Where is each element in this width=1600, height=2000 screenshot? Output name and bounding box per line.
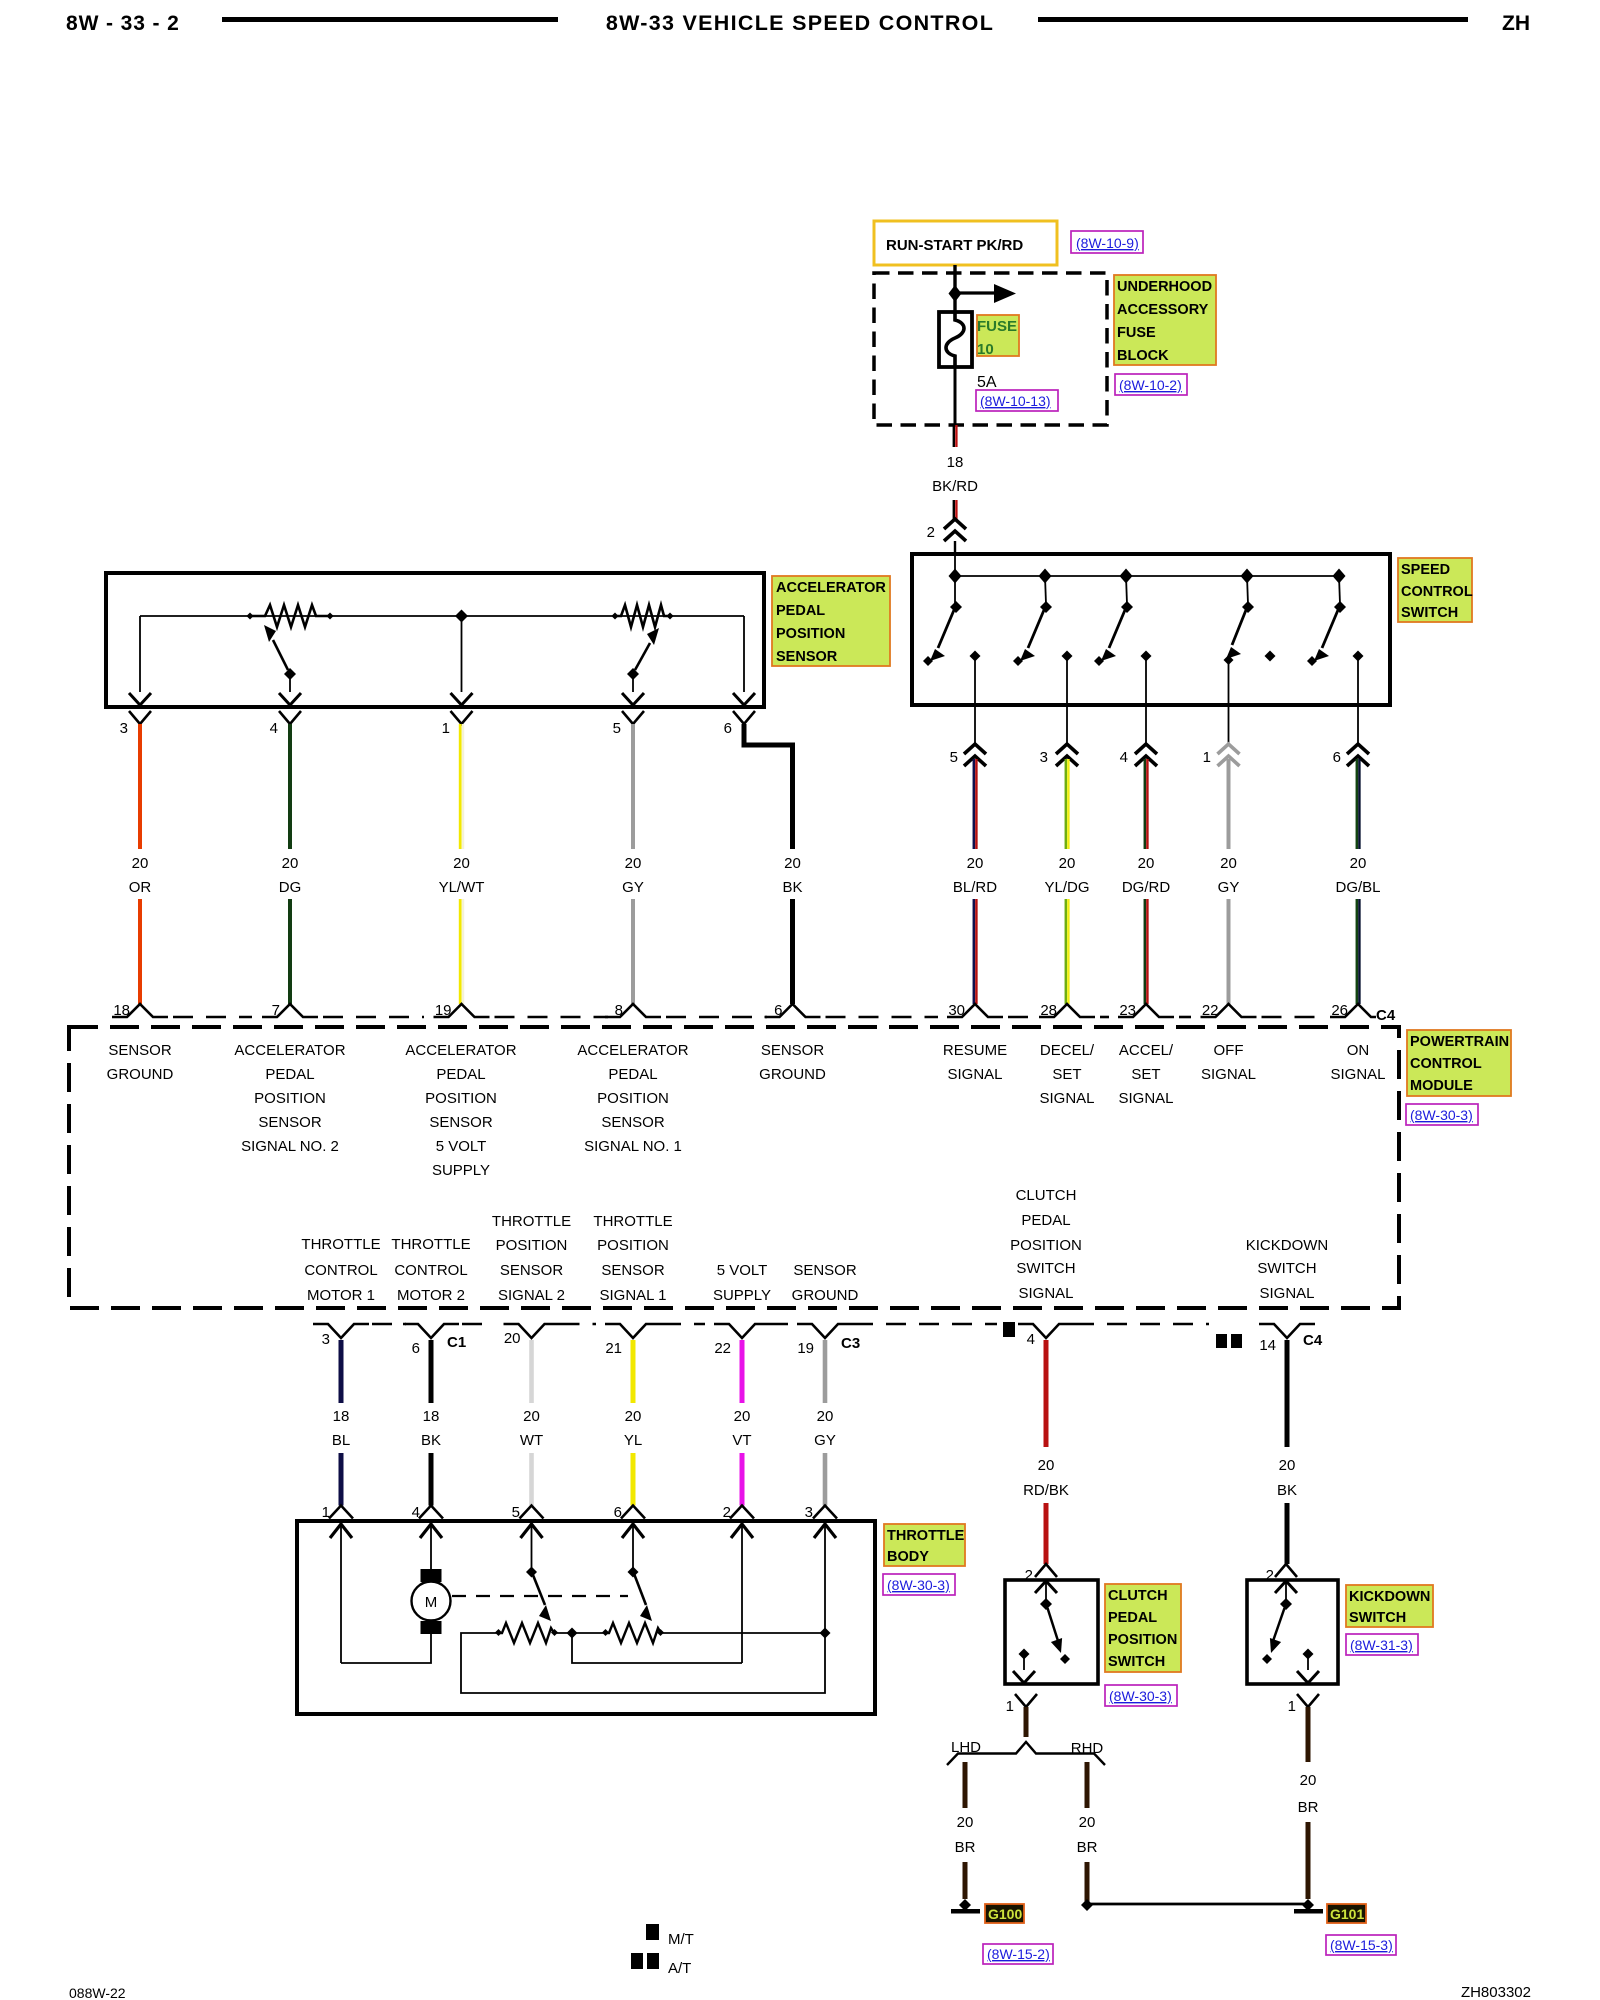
svg-text:(8W-15-2): (8W-15-2)	[987, 1946, 1050, 1962]
svg-text:SIGNAL: SIGNAL	[1118, 1090, 1173, 1107]
powertrain control module dashed boundary	[69, 1027, 1399, 1308]
svg-text:1: 1	[1203, 749, 1211, 766]
svg-text:GY: GY	[1218, 879, 1240, 896]
svg-text:YL/WT: YL/WT	[439, 879, 485, 896]
wire RHD to G101	[1087, 1903, 1308, 1906]
wire BL/RD lower	[973, 899, 976, 1004]
svg-text:C4: C4	[1376, 1007, 1396, 1024]
wire YL/WT pin1 upper	[459, 724, 462, 849]
svg-text:2: 2	[1266, 1567, 1274, 1584]
svg-text:SENSOR: SENSOR	[793, 1262, 857, 1279]
svg-text:3: 3	[120, 720, 128, 737]
clutch pedal position switch box	[1005, 1580, 1098, 1684]
node TPS mid junction	[567, 1628, 578, 1639]
wire BR LHD branch upper	[963, 1762, 968, 1808]
pin 6 entry arrow and wiper	[622, 1524, 652, 1621]
component label UNDERHOOD ACCESSORY FUSE BLOCK	[1114, 275, 1216, 365]
svg-text:20: 20	[1279, 1457, 1296, 1474]
svg-text:GROUND: GROUND	[759, 1066, 826, 1083]
wire GY lower	[1227, 899, 1231, 1004]
pin 2 entry arrow	[731, 1524, 753, 1538]
svg-text:8W-33 VEHICLE SPEED CONTROL: 8W-33 VEHICLE SPEED CONTROL	[606, 11, 994, 35]
wire GY pin5 upper	[631, 724, 635, 849]
svg-text:C1: C1	[447, 1334, 466, 1351]
svg-text:SIGNAL NO. 2: SIGNAL NO. 2	[241, 1138, 339, 1155]
wire BK/RD segment upper	[953, 425, 955, 447]
svg-text:4: 4	[1027, 1331, 1035, 1348]
svg-text:SET: SET	[1131, 1066, 1160, 1083]
svg-text:4: 4	[1120, 749, 1128, 766]
svg-text:MODULE: MODULE	[1410, 1078, 1473, 1094]
resistor APPS track 1	[246, 605, 333, 627]
svg-text:PEDAL: PEDAL	[265, 1066, 314, 1083]
svg-text:GY: GY	[814, 1432, 836, 1449]
wire stub pin 5	[974, 705, 976, 746]
svg-text:G100: G100	[988, 1906, 1022, 1922]
pin 3 entry arrow	[814, 1524, 836, 1538]
svg-text:6: 6	[1333, 749, 1341, 766]
svg-text:18: 18	[333, 1408, 350, 1425]
component label CLUTCH PEDAL POSITION SWITCH	[1105, 1584, 1181, 1672]
svg-text:SIGNAL: SIGNAL	[1330, 1066, 1385, 1083]
svg-text:SIGNAL: SIGNAL	[947, 1066, 1002, 1083]
wire RD/BK lower	[1044, 1503, 1049, 1564]
fuse label FUSE 10	[977, 315, 1019, 356]
svg-text:DG/RD: DG/RD	[1122, 879, 1171, 896]
svg-text:RD/BK: RD/BK	[1023, 1482, 1069, 1499]
svg-text:1: 1	[322, 1504, 330, 1521]
svg-text:(8W-30-3): (8W-30-3)	[887, 1577, 950, 1593]
svg-text:20: 20	[967, 855, 984, 872]
switch SCS accel	[1094, 576, 1152, 705]
wire DG pin4 upper	[288, 724, 292, 849]
svg-text:PEDAL: PEDAL	[436, 1066, 485, 1083]
wire BL upper	[339, 1340, 344, 1403]
header rule left	[222, 17, 558, 22]
svg-text:3: 3	[322, 1331, 330, 1348]
svg-text:POSITION: POSITION	[597, 1237, 669, 1254]
wire YL upper	[631, 1340, 636, 1403]
svg-text:THROTTLE: THROTTLE	[593, 1213, 672, 1230]
svg-text:6: 6	[724, 720, 732, 737]
svg-text:ZH803302: ZH803302	[1461, 1984, 1531, 2000]
svg-text:SET: SET	[1052, 1066, 1081, 1083]
wire WT lower	[529, 1453, 534, 1506]
wire BL/RD upper	[973, 759, 976, 849]
svg-text:RESUME: RESUME	[943, 1042, 1007, 1059]
svg-text:BK/RD: BK/RD	[932, 478, 978, 495]
svg-text:10: 10	[977, 341, 994, 358]
pin 1 entry arrow	[330, 1524, 352, 1538]
wire GY pin5 lower	[631, 899, 635, 1004]
svg-text:ACCELERATOR: ACCELERATOR	[405, 1042, 516, 1059]
svg-text:WT: WT	[520, 1432, 543, 1449]
wire BK pin6 elbow	[744, 724, 793, 849]
node RUN-START PK/RD feed box	[874, 221, 1057, 265]
svg-text:21: 21	[605, 1340, 622, 1357]
svg-text:OR: OR	[129, 879, 152, 896]
svg-text:FUSE: FUSE	[977, 318, 1017, 335]
svg-text:8W - 33 - 2: 8W - 33 - 2	[66, 12, 180, 35]
svg-text:5: 5	[950, 749, 958, 766]
node bus junction 4	[1241, 569, 1254, 584]
svg-text:20: 20	[734, 1408, 751, 1425]
wiper APPS 2	[622, 628, 659, 705]
svg-text:SWITCH: SWITCH	[1016, 1260, 1075, 1277]
svg-text:2: 2	[723, 1504, 731, 1521]
svg-text:SENSOR: SENSOR	[258, 1114, 322, 1131]
kickdown switch box	[1247, 1580, 1338, 1684]
svg-text:4: 4	[270, 720, 278, 737]
svg-text:CONTROL: CONTROL	[1410, 1056, 1482, 1072]
svg-text:20: 20	[523, 1408, 540, 1425]
svg-text:CONTROL: CONTROL	[394, 1262, 467, 1279]
svg-text:20: 20	[625, 855, 642, 872]
node bus junction 2	[1039, 569, 1052, 584]
svg-text:(8W-15-3): (8W-15-3)	[1330, 1937, 1393, 1953]
svg-text:SWITCH: SWITCH	[1108, 1654, 1165, 1670]
wire DG/RD lower	[1144, 899, 1147, 1004]
svg-text:(8W-30-3): (8W-30-3)	[1109, 1688, 1172, 1704]
motor M1	[412, 1582, 451, 1621]
svg-text:20: 20	[132, 855, 149, 872]
svg-text:BR: BR	[1298, 1799, 1319, 1816]
svg-text:088W-22: 088W-22	[69, 1985, 126, 2000]
component label THROTTLE BODY	[884, 1524, 965, 1566]
svg-text:BR: BR	[955, 1839, 976, 1856]
svg-text:2: 2	[927, 524, 935, 541]
mechanical link dashed	[452, 1595, 628, 1597]
svg-text:SPEED: SPEED	[1401, 562, 1450, 578]
svg-text:1: 1	[1006, 1698, 1014, 1715]
svg-text:UNDERHOOD: UNDERHOOD	[1117, 279, 1212, 295]
component label ACCELERATOR PEDAL POSITION SENSOR	[772, 576, 890, 666]
svg-text:SENSOR: SENSOR	[429, 1114, 493, 1131]
svg-text:THROTTLE: THROTTLE	[301, 1236, 380, 1253]
svg-text:DG/BL: DG/BL	[1335, 879, 1380, 896]
svg-text:20: 20	[1350, 855, 1367, 872]
marker A/T squares kickdown pin	[1216, 1334, 1227, 1348]
wire BK pin6 lower	[790, 899, 795, 1004]
reference link 8W-15-3	[1326, 1935, 1396, 1955]
wire OR pin3 upper	[138, 724, 142, 849]
wire VT upper	[740, 1340, 745, 1403]
svg-text:20: 20	[1038, 1457, 1055, 1474]
wire GY lower run upper	[823, 1340, 828, 1403]
svg-text:ZH: ZH	[1502, 12, 1530, 35]
wire DG/BL lower	[1356, 899, 1359, 1004]
svg-text:POSITION: POSITION	[425, 1090, 497, 1107]
svg-text:M/T: M/T	[668, 1931, 694, 1948]
pin 4 entry arrow	[420, 1524, 442, 1538]
svg-text:SENSOR: SENSOR	[500, 1262, 564, 1279]
wire OR pin3 lower	[138, 899, 142, 1004]
svg-text:19: 19	[797, 1340, 814, 1357]
connector line bottom dashes	[372, 1323, 406, 1326]
svg-text:ACCELERATOR: ACCELERATOR	[234, 1042, 345, 1059]
svg-text:20: 20	[1220, 855, 1237, 872]
label G100	[985, 1904, 1024, 1923]
svg-text:PEDAL: PEDAL	[1021, 1212, 1070, 1229]
clutch switch moving contact	[1035, 1581, 1057, 1593]
svg-text:3: 3	[805, 1504, 813, 1521]
svg-text:THROTTLE: THROTTLE	[391, 1236, 470, 1253]
svg-text:1: 1	[1288, 1698, 1296, 1715]
svg-text:(8W-30-3): (8W-30-3)	[1410, 1107, 1473, 1123]
svg-text:14: 14	[1259, 1337, 1276, 1354]
motor M1 brushes	[421, 1569, 442, 1582]
reference link 8W-10-13	[976, 390, 1058, 411]
reference link 8W-10-9	[1071, 231, 1143, 253]
wire YL lower	[631, 1453, 636, 1506]
svg-text:POSITION: POSITION	[1108, 1632, 1177, 1648]
svg-text:(8W-10-13): (8W-10-13)	[980, 393, 1051, 409]
wire APPS right leg to pin 6	[743, 616, 745, 692]
svg-text:SIGNAL: SIGNAL	[1018, 1285, 1073, 1302]
component label KICKDOWN SWITCH	[1346, 1585, 1433, 1627]
wire APPS left leg to pin 3	[139, 616, 141, 692]
svg-text:MOTOR 1: MOTOR 1	[307, 1287, 375, 1304]
svg-text:20: 20	[1079, 1814, 1096, 1831]
svg-text:MOTOR 2: MOTOR 2	[397, 1287, 465, 1304]
svg-text:VT: VT	[732, 1432, 751, 1449]
svg-text:KICKDOWN: KICKDOWN	[1349, 1589, 1430, 1605]
svg-text:1: 1	[442, 720, 450, 737]
svg-text:BODY: BODY	[887, 1549, 929, 1565]
svg-text:POSITION: POSITION	[776, 626, 845, 642]
wire stub pin 6	[1357, 705, 1359, 746]
wire DG/BL upper	[1356, 759, 1359, 849]
svg-text:GROUND: GROUND	[107, 1066, 174, 1083]
wire fuse output	[954, 367, 957, 425]
svg-text:YL/DG: YL/DG	[1044, 879, 1089, 896]
resistor TPS track 1	[495, 1623, 558, 1643]
node bus junction 3	[1120, 569, 1133, 584]
pin 5 entry arrow and wiper	[521, 1524, 552, 1621]
wire DG pin4 lower	[288, 899, 292, 1004]
wire motor return to pin 1	[341, 1634, 431, 1663]
svg-text:OFF: OFF	[1214, 1042, 1244, 1059]
node bus junction 1	[949, 569, 962, 584]
svg-text:POSITION: POSITION	[254, 1090, 326, 1107]
svg-text:18: 18	[423, 1408, 440, 1425]
wire DG/RD upper	[1144, 759, 1147, 849]
wire BK lower	[1285, 1503, 1290, 1564]
kickdown switch fixed contact	[1303, 1649, 1314, 1660]
svg-text:KICKDOWN: KICKDOWN	[1246, 1237, 1329, 1254]
svg-text:20: 20	[504, 1330, 521, 1347]
svg-text:SWITCH: SWITCH	[1401, 605, 1458, 621]
svg-text:SENSOR: SENSOR	[601, 1114, 665, 1131]
svg-text:PEDAL: PEDAL	[776, 603, 825, 619]
svg-text:ACCELERATOR: ACCELERATOR	[577, 1042, 688, 1059]
svg-text:5A: 5A	[977, 374, 997, 391]
wire TPS interconnect line	[554, 1632, 605, 1634]
speed control switch box	[912, 554, 1390, 705]
svg-text:CONTROL: CONTROL	[1401, 584, 1473, 600]
wire WT upper	[529, 1340, 534, 1403]
svg-text:BK: BK	[782, 879, 802, 896]
svg-text:BK: BK	[421, 1432, 441, 1449]
svg-text:ACCEL/: ACCEL/	[1119, 1042, 1174, 1059]
wire GY lower run lower	[823, 1453, 828, 1506]
wire BK upper	[429, 1340, 434, 1403]
svg-text:SIGNAL NO. 1: SIGNAL NO. 1	[584, 1138, 682, 1155]
wire stub pin 4	[1145, 705, 1147, 746]
svg-text:SIGNAL: SIGNAL	[1039, 1090, 1094, 1107]
svg-text:GROUND: GROUND	[792, 1287, 859, 1304]
label G101	[1327, 1904, 1366, 1923]
svg-text:POWERTRAIN: POWERTRAIN	[1410, 1034, 1509, 1050]
svg-text:SWITCH: SWITCH	[1349, 1610, 1406, 1626]
marker M/T square clutch pin	[1003, 1322, 1015, 1337]
svg-text:DG: DG	[279, 879, 302, 896]
reference link 8W-30-3	[1406, 1104, 1478, 1125]
svg-text:A/T: A/T	[668, 1960, 691, 1977]
svg-text:20: 20	[1138, 855, 1155, 872]
switch SCS on	[1307, 576, 1364, 705]
wire BR RHD branch lower	[1085, 1862, 1090, 1904]
svg-text:5: 5	[512, 1504, 520, 1521]
fuse F10 body	[939, 312, 972, 367]
wire YL/DG upper	[1065, 759, 1068, 849]
svg-text:SIGNAL 1: SIGNAL 1	[600, 1287, 667, 1304]
svg-text:20: 20	[784, 855, 801, 872]
svg-text:SENSOR: SENSOR	[761, 1042, 825, 1059]
svg-text:20: 20	[957, 1814, 974, 1831]
wire BR lower	[1306, 1822, 1311, 1899]
svg-text:SIGNAL: SIGNAL	[1201, 1066, 1256, 1083]
reference link 8W-10-2	[1115, 374, 1187, 395]
ground G101	[1302, 1899, 1314, 1911]
svg-text:BL: BL	[332, 1432, 350, 1449]
wire from run-start into fuse	[953, 265, 956, 313]
svg-text:BK: BK	[1277, 1482, 1297, 1499]
underhood accessory fuse block dashed boundary	[874, 273, 1107, 425]
wiper APPS 1	[264, 625, 301, 705]
svg-text:6: 6	[412, 1340, 420, 1357]
svg-text:THROTTLE: THROTTLE	[887, 1528, 965, 1544]
switch SCS decel	[1013, 576, 1073, 705]
legend A/T marker	[631, 1953, 643, 1969]
svg-text:BL/RD: BL/RD	[953, 879, 997, 896]
svg-text:20: 20	[453, 855, 470, 872]
svg-text:GY: GY	[622, 879, 644, 896]
component label POWERTRAIN CONTROL MODULE	[1407, 1030, 1511, 1096]
wire BK lower	[429, 1453, 434, 1506]
svg-text:M: M	[425, 1594, 438, 1611]
resistor TPS track 2	[602, 1623, 664, 1643]
wire BR stub below pin 1	[1024, 1707, 1029, 1737]
svg-text:(8W-31-3): (8W-31-3)	[1350, 1637, 1413, 1653]
throttle body box	[297, 1521, 875, 1714]
wire YL/DG lower	[1065, 899, 1068, 1004]
svg-text:C4: C4	[1303, 1332, 1323, 1349]
svg-text:DECEL/: DECEL/	[1040, 1042, 1095, 1059]
svg-text:PEDAL: PEDAL	[608, 1066, 657, 1083]
node bus junction 5	[1333, 569, 1346, 584]
svg-text:20: 20	[817, 1408, 834, 1425]
wire YL/WT pin1 lower	[459, 899, 462, 1004]
wire VT lower	[740, 1453, 745, 1506]
svg-text:ACCELERATOR: ACCELERATOR	[776, 580, 886, 596]
wire into switch	[954, 541, 956, 556]
legend M/T marker	[646, 1924, 659, 1940]
component label SPEED CONTROL SWITCH	[1398, 558, 1472, 622]
svg-text:SIGNAL 2: SIGNAL 2	[498, 1287, 565, 1304]
kickdown switch moving contact	[1275, 1581, 1297, 1593]
header rule right	[1038, 17, 1468, 22]
svg-text:POSITION: POSITION	[1010, 1237, 1082, 1254]
wire feed to switch 1	[954, 556, 956, 604]
svg-text:BR: BR	[1077, 1839, 1098, 1856]
svg-text:20: 20	[625, 1408, 642, 1425]
wire BR LHD branch lower	[963, 1862, 968, 1899]
wire internal bus of APPS	[140, 615, 744, 617]
svg-text:THROTTLE: THROTTLE	[492, 1213, 571, 1230]
wire BK/RD segment lower	[953, 500, 955, 519]
node APPS centre junction	[455, 610, 468, 623]
resistor APPS track 2	[611, 605, 673, 627]
svg-text:BLOCK: BLOCK	[1117, 348, 1169, 364]
wire mid junction to pin 2	[572, 1633, 742, 1663]
reference link 8W-31-3	[1346, 1634, 1418, 1655]
svg-text:22: 22	[714, 1340, 731, 1357]
svg-text:SENSOR: SENSOR	[776, 649, 838, 665]
wire stub pin 1	[1228, 705, 1230, 746]
svg-text:CONTROL: CONTROL	[304, 1262, 377, 1279]
wire BK upper	[1285, 1340, 1290, 1447]
wire TPS return loop	[461, 1633, 825, 1693]
svg-text:ACCESSORY: ACCESSORY	[1117, 302, 1209, 318]
wire RD/BK upper	[1044, 1340, 1049, 1447]
switch SCS off	[1224, 576, 1276, 705]
ground G100	[959, 1899, 971, 1911]
svg-text:C3: C3	[841, 1335, 860, 1352]
svg-text:2: 2	[1025, 1567, 1033, 1584]
svg-text:SUPPLY: SUPPLY	[432, 1162, 490, 1179]
node junction at feed	[949, 285, 962, 302]
svg-text:3: 3	[1040, 749, 1048, 766]
svg-text:(8W-10-9): (8W-10-9)	[1076, 235, 1139, 251]
svg-text:FUSE: FUSE	[1117, 325, 1156, 341]
clutch switch fixed contact	[1019, 1649, 1030, 1660]
svg-text:POSITION: POSITION	[597, 1090, 669, 1107]
svg-text:YL: YL	[624, 1432, 642, 1449]
accelerator pedal position sensor box	[106, 573, 764, 707]
svg-text:SENSOR: SENSOR	[601, 1262, 665, 1279]
wire branch arrow to other circuits	[955, 291, 996, 294]
svg-text:SIGNAL: SIGNAL	[1259, 1285, 1314, 1302]
wire BL lower	[339, 1453, 344, 1506]
svg-text:POSITION: POSITION	[496, 1237, 568, 1254]
svg-text:20: 20	[282, 855, 299, 872]
svg-text:5: 5	[613, 720, 621, 737]
svg-text:18: 18	[947, 454, 964, 471]
wire stub pin 3	[1066, 705, 1068, 746]
wire GY upper	[1227, 759, 1231, 849]
wire internal bus of switch	[955, 575, 1339, 577]
svg-text:4: 4	[412, 1504, 420, 1521]
svg-text:5 VOLT: 5 VOLT	[436, 1138, 487, 1155]
svg-text:SWITCH: SWITCH	[1257, 1260, 1316, 1277]
connector line C4 dashes	[173, 1016, 252, 1019]
node RHD junction	[1081, 1899, 1093, 1911]
svg-text:SENSOR: SENSOR	[108, 1042, 172, 1059]
svg-text:20: 20	[1059, 855, 1076, 872]
svg-text:CLUTCH: CLUTCH	[1108, 1588, 1168, 1604]
wire APPS centre leg to pin 1	[461, 616, 463, 692]
